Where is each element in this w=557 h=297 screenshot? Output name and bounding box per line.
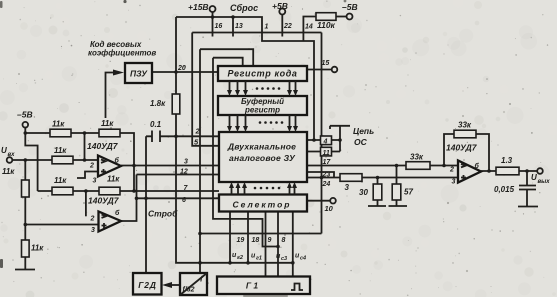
junction divider node op-amp2 [24, 223, 28, 227]
wire ROM input arrow line [106, 73, 114, 119]
selector block [219, 195, 307, 212]
junction uc4 [291, 261, 295, 265]
junction bus1 Sbros [231, 15, 235, 19]
wire selector bottom pin9 to G1 [265, 212, 267, 277]
arrows buffer to memory [230, 115, 296, 127]
terminal -5V top right [347, 14, 353, 20]
resistor R5 11k op-amp2 feedback [99, 187, 120, 195]
pin box 11 [321, 147, 332, 156]
svg-text:11к: 11к [54, 176, 67, 185]
wire 30 resistor drop and ground lead [377, 178, 379, 207]
svg-text:б: б [115, 209, 120, 217]
svg-text:регистр: регистр [244, 106, 280, 115]
svg-text:Сброс: Сброс [230, 3, 258, 13]
svg-text:10: 10 [325, 204, 334, 213]
junction pin19 bottom [228, 261, 232, 265]
resistor R3 11k Uvx input [52, 156, 73, 164]
wire 110k right lead to -5V terminal [336, 16, 347, 18]
svg-text:1.8к: 1.8к [150, 99, 166, 108]
svg-text:вх: вх [8, 152, 16, 158]
junction -5V row1 [24, 131, 28, 135]
svg-text:14: 14 [305, 24, 313, 31]
resistor R15 1.3 output [496, 167, 519, 175]
wire -5V terminal down to row1 [24, 128, 26, 134]
svg-text:140УД7: 140УД7 [88, 196, 120, 206]
resistor R12 3 series [340, 174, 362, 182]
svg-text:30: 30 [359, 188, 368, 197]
junction divider input [198, 261, 202, 265]
svg-text:9: 9 [268, 237, 272, 244]
op-amp U3 140UD7 output [458, 161, 481, 183]
junction op-amp1 inverting [83, 131, 87, 135]
svg-text:19: 19 [237, 237, 245, 244]
wire pin5 line from bus2 vertical [192, 33, 219, 146]
svg-text:3: 3 [452, 179, 456, 186]
terminal pin15 [332, 67, 338, 73]
svg-text:110к: 110к [317, 20, 336, 30]
junction node A pin4 [312, 138, 316, 142]
wire memory pin4 line [307, 139, 340, 141]
dots between selector and memory [254, 187, 257, 190]
svg-text:33к: 33к [410, 153, 424, 162]
wire selector bottom pin19 [229, 212, 231, 263]
pulse symbol in G1 [291, 284, 303, 291]
svg-text:U: U [531, 173, 537, 182]
wire op-amp1 inverting node vertical [84, 133, 86, 160]
junction op-amp1 output [132, 164, 136, 168]
resistor R7 11k vertical lower [22, 240, 30, 257]
svg-text:г2: г2 [237, 255, 243, 261]
wire pin13 tick (Sbros) [232, 17, 234, 37]
dots between buffer and memory [259, 121, 262, 124]
memory block (Dvukhkanalnoe analogovoe ZU) [219, 132, 307, 182]
wire register wrap input 1 (vert x=203 from corner to divider) [200, 49, 253, 273]
divider f/32 block with diagonal [180, 273, 207, 295]
terminal Uvyx [537, 168, 543, 174]
wire pin24 line through 3 resistor to op-amp3 [307, 177, 458, 179]
dots between register and buffer [256, 87, 259, 90]
wire op-amp1 noninverting stub [77, 172, 98, 179]
wire pin16 tick from +15V terminal [212, 12, 214, 37]
svg-text:18: 18 [252, 237, 260, 244]
terminal -5V left [23, 122, 29, 128]
svg-text:Двухканальное: Двухканальное [227, 142, 296, 152]
wire op-amp3 feedback loop [444, 134, 489, 171]
wire pin23 jog to pin24 line [307, 172, 334, 178]
wire op-amp3 output through 1.3 to Uvyx terminal [481, 170, 537, 172]
resistor R9 110k top [316, 13, 336, 21]
capacitor C1 0.1 plates [152, 131, 160, 143]
resistor R1 11k row1 input [50, 129, 71, 137]
wire Uvx input row2 through 11k to op-amp1 [13, 159, 99, 161]
svg-text:140УД7: 140УД7 [87, 141, 119, 151]
svg-text:Г2Д: Г2Д [138, 280, 156, 290]
svg-text:0.1: 0.1 [150, 120, 162, 129]
svg-text:2: 2 [89, 163, 94, 170]
G2D block [133, 273, 162, 295]
junction right vertical pin24 [320, 176, 324, 180]
wire output filter cap leads [526, 171, 528, 207]
edge smudge left [0, 259, 3, 268]
svg-text:Регистр кода: Регистр кода [227, 69, 297, 79]
junction ROM line pullup [174, 70, 178, 74]
wire -5V staircase down to row3 [25, 133, 37, 191]
svg-text:0,015: 0,015 [494, 185, 515, 194]
junction pin7 tap [132, 189, 136, 193]
svg-text:3: 3 [184, 159, 188, 166]
svg-text:–5В: –5В [17, 110, 33, 120]
ground under 30 [368, 205, 386, 207]
terminal +15V [210, 6, 216, 12]
wire 57 resistor drop from pin17 line [396, 166, 398, 207]
svg-text:с4: с4 [300, 256, 306, 262]
arrowhead into ROM [113, 70, 124, 76]
svg-text:11к: 11к [52, 120, 65, 129]
wire selector bottom pin8 to G1 [277, 212, 279, 277]
svg-text:Селектор: Селектор [232, 200, 291, 210]
svg-text:33к: 33к [458, 121, 472, 130]
svg-text:с3: с3 [281, 256, 287, 262]
wire selector pin10 line to terminal [307, 200, 330, 202]
svg-text:ПЗУ: ПЗУ [130, 69, 148, 79]
arrowhead divider to G2D [162, 282, 172, 288]
junction 57 tap [395, 164, 399, 168]
svg-text:f/32: f/32 [183, 287, 195, 294]
wire selector bottom uc4 to G1 [292, 212, 294, 277]
svg-text:24: 24 [322, 181, 331, 188]
svg-text:23: 23 [322, 172, 331, 179]
svg-text:11: 11 [323, 150, 330, 157]
ROM block PZU [125, 63, 152, 83]
junction pin2 cap node [174, 135, 178, 139]
svg-text:б: б [475, 162, 480, 170]
svg-text:Цепь: Цепь [353, 126, 374, 136]
junction pin8 weave [276, 245, 280, 249]
op-amp U2 140UD7 bottom [99, 212, 122, 232]
svg-text:аналоговое ЗУ: аналоговое ЗУ [229, 153, 296, 163]
wire +5V bus (bus2) [192, 32, 321, 34]
junction feedback tap op-amp3 [442, 164, 446, 168]
svg-text:11к: 11к [101, 119, 114, 128]
wire register pin15 line to terminal [307, 69, 331, 71]
wire pin14 from 110k resistor down to bus [303, 17, 316, 42]
svg-text:коэффициентов: коэффициентов [88, 49, 156, 58]
G1 block [217, 277, 310, 295]
svg-text:8: 8 [282, 237, 286, 244]
junction strobe line [144, 197, 148, 201]
svg-text:+5В: +5В [272, 1, 288, 11]
svg-text:+15В: +15В [188, 2, 209, 12]
svg-text:3: 3 [91, 227, 95, 234]
wire register wrap input 2 (vert x=213 to lower weave) [213, 58, 278, 247]
svg-text:17: 17 [323, 159, 332, 166]
junction output cap [525, 169, 529, 173]
wire op-amp1 output to pin3 [121, 165, 219, 167]
terminal +5V [279, 9, 285, 15]
svg-text:4: 4 [323, 139, 328, 146]
junction 30 tap [376, 176, 380, 180]
svg-text:15: 15 [322, 60, 330, 67]
junction Uvx node [24, 158, 28, 162]
wire op-amp2 noninverting long line [25, 224, 98, 226]
svg-text:12: 12 [180, 169, 188, 176]
svg-text:3: 3 [93, 178, 97, 185]
wire right vertical from bus2 down to bottom horizontal [321, 33, 323, 234]
svg-text:57: 57 [404, 188, 413, 197]
svg-text:1.3: 1.3 [501, 156, 513, 165]
wire selector bottom pin18 [247, 212, 249, 263]
svg-text:11к: 11к [31, 244, 44, 253]
OS circuit open bar [330, 126, 350, 129]
wire op-amp2 output up to pin12 line and pin6 line [121, 175, 219, 222]
wire pin2 line with 0.1 cap leads [146, 135, 219, 137]
junction bus1 +15V [211, 15, 215, 19]
wire memory pin11 line [307, 151, 340, 153]
junction pin6 strobe [135, 197, 139, 201]
wire bottom long horizontal under selector [200, 233, 322, 235]
wire +15V/Sbros bus (bus1) with right step down to node A vertical [176, 17, 314, 140]
terminal pin10 [330, 198, 336, 204]
svg-text:2: 2 [195, 127, 201, 136]
wire row1: -5V through 11k resistors to feedback corner [25, 133, 134, 191]
svg-text:16: 16 [215, 23, 223, 30]
wire divider f/32 to G2D arrow line [165, 284, 180, 286]
svg-text:б: б [115, 157, 120, 165]
resistor R2 11k op-amp1 feedback [99, 129, 120, 137]
arrows selector up to memory [232, 187, 295, 195]
resistor R8 1.8k vertical [172, 94, 180, 114]
buffer register block [218, 96, 307, 115]
junction op-amp2 inverting [84, 189, 88, 193]
ground under 0.015 [518, 206, 538, 208]
op-amp U1 140UD7 top [98, 156, 121, 177]
svg-text:–5В: –5В [342, 2, 358, 12]
wire strobe vertical from cap to G2D [145, 136, 147, 273]
resistor R11 33k series [406, 162, 430, 170]
svg-text:1: 1 [265, 24, 269, 31]
wire row3 / pin7 line through 11k resistors to selector [38, 190, 219, 192]
wire input divider vertical with junction to op-amp2 noninverting [24, 160, 26, 270]
svg-text:20: 20 [177, 65, 186, 72]
wire ROM output line pin10 into register [152, 71, 218, 73]
wire OS circuit stub [339, 126, 341, 152]
svg-text:3: 3 [345, 183, 350, 192]
wire pin22 tick from +5V terminal [281, 15, 283, 37]
resistor R6 11k vertical shunt [22, 180, 30, 197]
svg-text:22: 22 [283, 23, 292, 30]
wire long left vertical: bus1 corner through 1.8k down to bottom horizontal to uc4 [176, 17, 293, 263]
resistor R4 11k row3 input [52, 187, 73, 195]
svg-text:г1: г1 [256, 256, 262, 262]
capacitor 0.015 plates [519, 186, 536, 190]
svg-text:6: 6 [182, 197, 186, 204]
svg-text:2: 2 [449, 167, 454, 174]
terminal Uvx [7, 157, 13, 163]
junction op-amp3 output feedback [487, 169, 491, 173]
wire pin17 line to 33k [307, 165, 458, 167]
register block (Registr koda) [218, 66, 307, 81]
ground left divider [15, 269, 35, 271]
svg-text:вых: вых [538, 179, 551, 185]
svg-text:2: 2 [90, 216, 95, 223]
svg-text:13: 13 [235, 23, 243, 30]
svg-text:Г 1: Г 1 [246, 281, 259, 291]
resistor R14 57 vertical [392, 184, 401, 200]
svg-text:140УД7: 140УД7 [446, 143, 478, 153]
junction pin18 bottom [246, 261, 250, 265]
wire op-amp2 inverting node vertical [85, 191, 87, 216]
svg-text:Строб: Строб [148, 209, 178, 219]
resistor R10 33k op-amp3 feedback [454, 130, 476, 138]
ground under 57 [389, 205, 408, 207]
arrows register to buffer [230, 81, 296, 91]
svg-text:11к: 11к [54, 146, 67, 155]
svg-text:ОС: ОС [354, 137, 368, 147]
resistor R13 30 vertical [373, 184, 382, 200]
svg-text:11к: 11к [2, 167, 15, 176]
pin box 4 [321, 136, 332, 145]
svg-text:11к: 11к [107, 175, 120, 184]
svg-text:U: U [1, 146, 7, 155]
